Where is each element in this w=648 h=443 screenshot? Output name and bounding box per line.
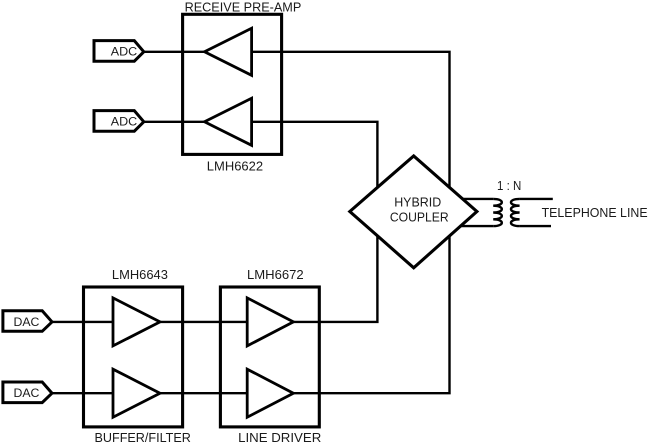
svg-text:LINE DRIVER: LINE DRIVER bbox=[238, 430, 321, 443]
port tag ADC (upper) bbox=[94, 41, 144, 62]
transformer T1 secondary winding bbox=[511, 199, 520, 226]
wire: diamond to transformer primary top bbox=[462, 198, 493, 200]
svg-text:HYBRID: HYBRID bbox=[394, 194, 441, 209]
block U1 receive pre-amp box bbox=[183, 14, 282, 154]
svg-text:LMH6672: LMH6672 bbox=[247, 267, 304, 282]
svg-text:DAC: DAC bbox=[14, 315, 40, 329]
op-amp A2 (receive, lower, points left) bbox=[205, 98, 252, 145]
svg-text:ADC: ADC bbox=[111, 45, 138, 59]
wire: transformer secondary bottom to telephone line bbox=[520, 225, 551, 227]
port tag ADC (lower) bbox=[94, 111, 144, 132]
wire: ADC2 tag to amp A2 bbox=[144, 121, 205, 123]
svg-text:COUPLER: COUPLER bbox=[390, 209, 449, 224]
svg-text:1 : N: 1 : N bbox=[497, 178, 521, 193]
hybrid coupler diamond bbox=[350, 156, 477, 268]
svg-text:TELEPHONE LINE: TELEPHONE LINE bbox=[542, 205, 648, 220]
wire: A4 output to A6 input bbox=[160, 392, 247, 394]
svg-text:LMH6622: LMH6622 bbox=[207, 159, 263, 174]
wire: ADC1 tag to amp A1 bbox=[144, 51, 205, 53]
wire net: A1 output right then down VR to line-driver row R4 bbox=[252, 52, 450, 393]
port tag DAC (upper) bbox=[3, 311, 52, 332]
block U3 line driver box bbox=[220, 287, 319, 427]
svg-text:RECEIVE PRE-AMP: RECEIVE PRE-AMP bbox=[185, 0, 302, 15]
wire: DAC1 tag to amp A3 bbox=[52, 321, 113, 323]
wire net: A2 output right then down VL to line-driver row R3 bbox=[252, 122, 378, 322]
op-amp A6 (driver lower, points right) bbox=[247, 369, 293, 417]
wire: transformer secondary top to telephone line bbox=[520, 198, 553, 200]
transformer T1 primary winding bbox=[493, 199, 502, 226]
wire: diamond to transformer primary bottom bbox=[460, 225, 493, 227]
op-amp A3 (buffer upper, points right) bbox=[113, 298, 160, 346]
wire: A3 output to A5 input bbox=[160, 321, 247, 323]
wire: DAC2 tag to amp A4 bbox=[52, 392, 113, 394]
op-amp A4 (buffer lower, points right) bbox=[113, 369, 160, 417]
svg-text:LMH6643: LMH6643 bbox=[112, 267, 168, 282]
op-amp A5 (driver upper, points right) bbox=[247, 298, 293, 346]
block U2 buffer/filter box bbox=[84, 287, 183, 427]
op-amp A1 (receive, upper, points left) bbox=[205, 28, 252, 75]
svg-text:DAC: DAC bbox=[14, 386, 40, 400]
svg-text:BUFFER/FILTER: BUFFER/FILTER bbox=[95, 430, 191, 443]
svg-text:ADC: ADC bbox=[111, 115, 138, 129]
port tag DAC (lower) bbox=[3, 382, 52, 403]
